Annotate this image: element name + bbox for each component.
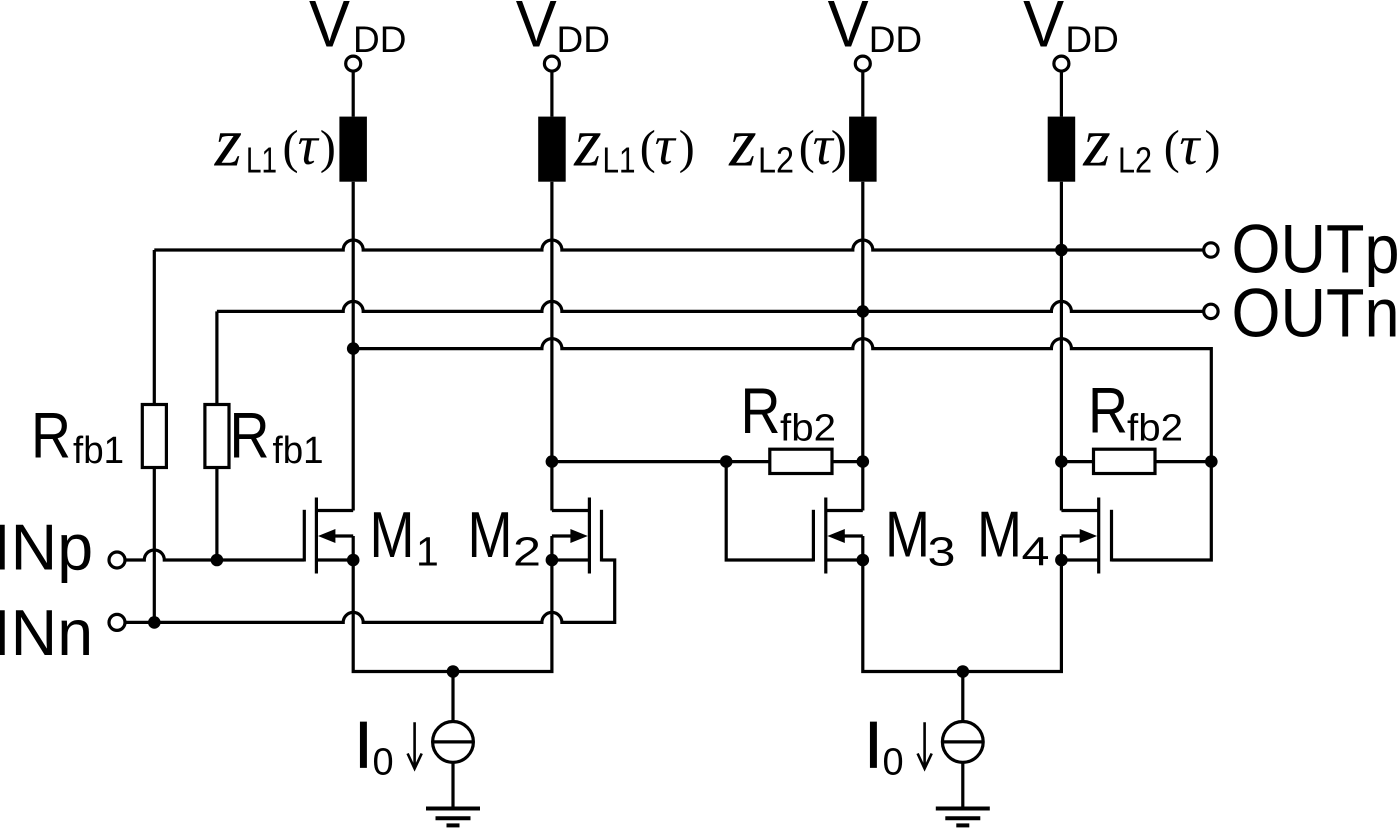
- svg-text:M: M: [885, 498, 930, 571]
- svg-text:V: V: [1023, 0, 1064, 61]
- svg-text:1: 1: [416, 528, 439, 574]
- node VDD label 3: [828, 0, 923, 61]
- svg-text:τ: τ: [1179, 115, 1201, 177]
- wire stage1 tail: [353, 560, 552, 672]
- svg-text:L2: L2: [1118, 140, 1152, 181]
- node junction M1 source: [347, 554, 360, 567]
- wire OUTn bus: [217, 301, 1204, 311]
- node junction gatebus-col1: [347, 342, 360, 355]
- label M1: [370, 498, 439, 574]
- svg-text:z: z: [728, 105, 756, 182]
- terminal VDD 4: [1054, 56, 1069, 71]
- wire VDD1 to ZL1a: [352, 71, 355, 117]
- svg-text:V: V: [516, 0, 557, 61]
- node junction stage1 tail: [447, 665, 460, 678]
- svg-text:(: (: [640, 121, 656, 174]
- arrow current direction stage1: [408, 722, 422, 768]
- wire branch down to M3 gate: [726, 462, 813, 560]
- node junction INn-Rfb1a: [148, 616, 161, 629]
- svg-text:L2: L2: [758, 140, 794, 181]
- svg-text:3: 3: [928, 528, 956, 574]
- terminal INn: [109, 614, 125, 630]
- ground stage2: [936, 809, 990, 826]
- node junction OUTp-col4: [1055, 244, 1068, 257]
- label Rfb2a: [741, 374, 837, 450]
- svg-text:): ): [679, 121, 695, 174]
- svg-text:R: R: [1088, 373, 1128, 446]
- label ZL1a: [214, 105, 336, 182]
- svg-text:): ): [831, 121, 847, 174]
- wire Rfb2a right to col3: [832, 460, 863, 463]
- terminal VDD 3: [855, 56, 870, 71]
- wire VDD4 to ZL2b: [1060, 71, 1063, 117]
- transistor M1: [304, 498, 353, 574]
- wire VDD2 to ZL1b: [550, 71, 553, 117]
- wire INn to M2 gate: [125, 560, 615, 622]
- svg-text:M: M: [370, 498, 415, 571]
- svg-text:fb2: fb2: [780, 408, 836, 450]
- arrow current direction stage2: [918, 722, 932, 768]
- terminal OUTn: [1204, 304, 1218, 318]
- node junction stage2 tail: [957, 665, 970, 678]
- label M3: [885, 498, 956, 575]
- svg-text:2: 2: [513, 528, 541, 574]
- terminal VDD 1: [346, 56, 361, 71]
- svg-text:M: M: [468, 498, 513, 571]
- svg-text:R: R: [230, 398, 270, 471]
- node VDD label 1: [309, 0, 406, 61]
- wire ZL1a to M1 drain: [352, 182, 355, 511]
- label I0 stage2: [864, 707, 903, 783]
- svg-text:0: 0: [373, 741, 394, 783]
- wire ZL2b to M4 drain: [1060, 182, 1063, 511]
- wire ZL1b to M2 drain: [550, 182, 553, 511]
- svg-text:): ): [320, 121, 336, 174]
- label ZL2b: [1082, 105, 1220, 182]
- label M4: [977, 498, 1050, 575]
- wire Rfb2b right to gate bus drop: [1155, 460, 1211, 463]
- node VDD label 4: [1023, 0, 1119, 61]
- svg-text:z: z: [1082, 105, 1110, 182]
- impedance ZL1a (black body): [339, 117, 367, 182]
- node junction OUTn-col3: [857, 305, 870, 318]
- wire stage2 input from M2 drain: [552, 460, 770, 463]
- node junction col2-stage2 input: [546, 455, 559, 468]
- svg-text:DD: DD: [557, 19, 610, 60]
- svg-text:τ: τ: [298, 115, 320, 177]
- svg-text:OUTn: OUTn: [1232, 275, 1400, 352]
- svg-text:(: (: [283, 121, 299, 174]
- svg-text:R: R: [31, 398, 71, 471]
- impedance ZL2a (black body): [849, 117, 877, 182]
- svg-text:z: z: [573, 105, 601, 182]
- node junction M4 source: [1055, 554, 1068, 567]
- svg-text:INp: INp: [0, 512, 93, 584]
- current source I0 stage2: [942, 722, 983, 763]
- label M2: [468, 498, 542, 574]
- node junction M2 source: [546, 554, 559, 567]
- svg-text:V: V: [828, 0, 869, 61]
- wire ZL2a to M3 drain: [861, 182, 864, 511]
- impedance ZL2b (black body): [1048, 117, 1076, 182]
- resistor Rfb1b (vertical): [215, 311, 218, 560]
- impedance ZL1b (black body): [538, 117, 566, 182]
- wire Rfb2b left to col4: [1061, 460, 1093, 463]
- terminal VDD 2: [544, 56, 559, 71]
- node VDD label 2: [516, 0, 610, 61]
- wire current source 2 to ground: [961, 762, 964, 808]
- node junction Rfb2a left / M3 gate branch: [720, 455, 733, 468]
- wire tail to current source 2: [961, 672, 964, 722]
- svg-text:DD: DD: [353, 19, 406, 60]
- transistor M3: [813, 498, 862, 574]
- label ZL1b: [573, 105, 694, 182]
- svg-text:I: I: [354, 707, 372, 781]
- node junction Rfb2b-gatebus: [1205, 455, 1218, 468]
- svg-text:(: (: [1164, 121, 1180, 174]
- terminal OUTp: [1204, 243, 1218, 257]
- svg-text:fb1: fb1: [273, 430, 324, 472]
- wire OUTp bus: [154, 240, 1203, 250]
- wire stage2 tail: [863, 560, 1062, 672]
- label I0 stage1: [354, 707, 393, 783]
- transistor M4: [1061, 498, 1111, 574]
- node junction M3 source: [857, 554, 870, 567]
- resistor Rfb1a (vertical): [153, 250, 156, 622]
- label ZL2a: [728, 105, 847, 182]
- resistor Rfb2a (horizontal): [770, 449, 832, 473]
- svg-text:fb2: fb2: [1127, 408, 1183, 450]
- current source I0 stage1: [433, 722, 474, 763]
- svg-text:z: z: [214, 105, 242, 182]
- resistor Rfb2b (horizontal): [1094, 449, 1156, 473]
- svg-text:I: I: [864, 707, 882, 781]
- wire tail to current source 1: [451, 672, 454, 722]
- svg-text:0: 0: [883, 741, 904, 783]
- node junction Rfb2a-col3: [857, 455, 870, 468]
- svg-text:4: 4: [1022, 528, 1050, 574]
- svg-text:fb1: fb1: [73, 430, 124, 472]
- node junction INp-Rfb1b: [211, 554, 224, 567]
- terminal INp: [109, 552, 125, 568]
- wire INp to M1 gate: [125, 550, 304, 560]
- svg-text:INn: INn: [0, 597, 93, 669]
- wire current source 1 to ground: [451, 762, 454, 808]
- label Rfb1b: [230, 398, 324, 471]
- wire VDD3 to ZL2a: [861, 71, 864, 117]
- svg-text:V: V: [309, 0, 350, 61]
- svg-text:DD: DD: [869, 19, 922, 60]
- transistor M2: [552, 498, 602, 574]
- svg-text:): ): [1205, 121, 1221, 174]
- svg-text:L1: L1: [246, 140, 277, 181]
- ground stage1: [426, 809, 480, 826]
- label Rfb2b: [1088, 373, 1183, 449]
- svg-text:M: M: [977, 498, 1022, 571]
- svg-text:τ: τ: [655, 115, 677, 177]
- svg-text:DD: DD: [1065, 19, 1118, 60]
- label Rfb1a: [31, 398, 124, 471]
- wire gate bus from M1 drain to M4 gate: [353, 339, 1211, 560]
- svg-text:R: R: [741, 374, 781, 447]
- node junction Rfb2b-col4: [1055, 455, 1068, 468]
- svg-text:L1: L1: [603, 140, 636, 181]
